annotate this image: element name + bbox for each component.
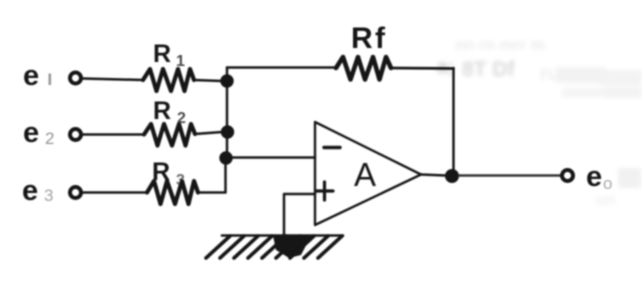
label R3	[152, 158, 185, 189]
resistor R3	[147, 181, 198, 204]
inverting input minus sign	[324, 146, 340, 149]
svg-text:e: e	[586, 161, 602, 193]
wire R2 to node	[195, 132, 222, 134]
terminal e3	[70, 187, 81, 198]
wire R3 up to node 3	[198, 161, 226, 193]
svg-text:un: un	[596, 192, 616, 209]
label e2	[23, 117, 54, 149]
noninverting input plus sign	[316, 182, 333, 200]
svg-text:8T Df: 8T Df	[462, 58, 516, 81]
feedback wire down	[452, 68, 455, 171]
label Rf	[351, 22, 386, 55]
svg-text:e: e	[23, 117, 39, 149]
wire e1 to R1	[83, 79, 143, 81]
label R2	[153, 97, 186, 127]
wire e2 to R2	[83, 133, 144, 136]
svg-text:f: f	[375, 22, 386, 55]
wire bus to Rf	[227, 66, 336, 69]
output node	[445, 169, 459, 183]
svg-text:e: e	[22, 175, 38, 207]
svg-text:R: R	[153, 97, 171, 125]
summing bus wire	[226, 68, 229, 159]
label e1	[23, 60, 51, 92]
wire Rf to feedback corner	[391, 67, 454, 70]
label e3	[22, 175, 53, 207]
wire node to inverting input	[226, 156, 315, 159]
label e0	[586, 161, 612, 193]
ground	[206, 236, 343, 259]
label R1	[153, 40, 185, 70]
svg-text:o: o	[603, 174, 612, 193]
svg-text:e: e	[23, 60, 39, 92]
resistor R1	[143, 69, 194, 91]
terminal e1	[70, 73, 81, 84]
svg-text:nn rn mrr m: nn rn mrr m	[455, 37, 545, 54]
wire op-amp output	[421, 175, 446, 176]
wire output to terminal	[459, 174, 560, 177]
resistor Rf	[336, 57, 391, 80]
terminal e2	[70, 129, 81, 140]
op-amp U1	[315, 122, 421, 225]
wire plus input to ground	[284, 194, 315, 235]
junction node 1	[220, 74, 233, 87]
junction node 2	[221, 125, 234, 138]
svg-text:2: 2	[45, 129, 54, 148]
wire R1 to node	[194, 80, 222, 81]
junction node 3	[219, 151, 232, 164]
svg-text:A: A	[354, 156, 376, 193]
svg-text:3: 3	[44, 186, 53, 205]
wire e3 to R3	[83, 191, 147, 194]
terminal e0	[562, 170, 573, 181]
svg-text:R: R	[153, 40, 171, 68]
svg-text:R: R	[351, 22, 373, 55]
resistor R2	[144, 124, 195, 146]
label A	[354, 156, 376, 193]
